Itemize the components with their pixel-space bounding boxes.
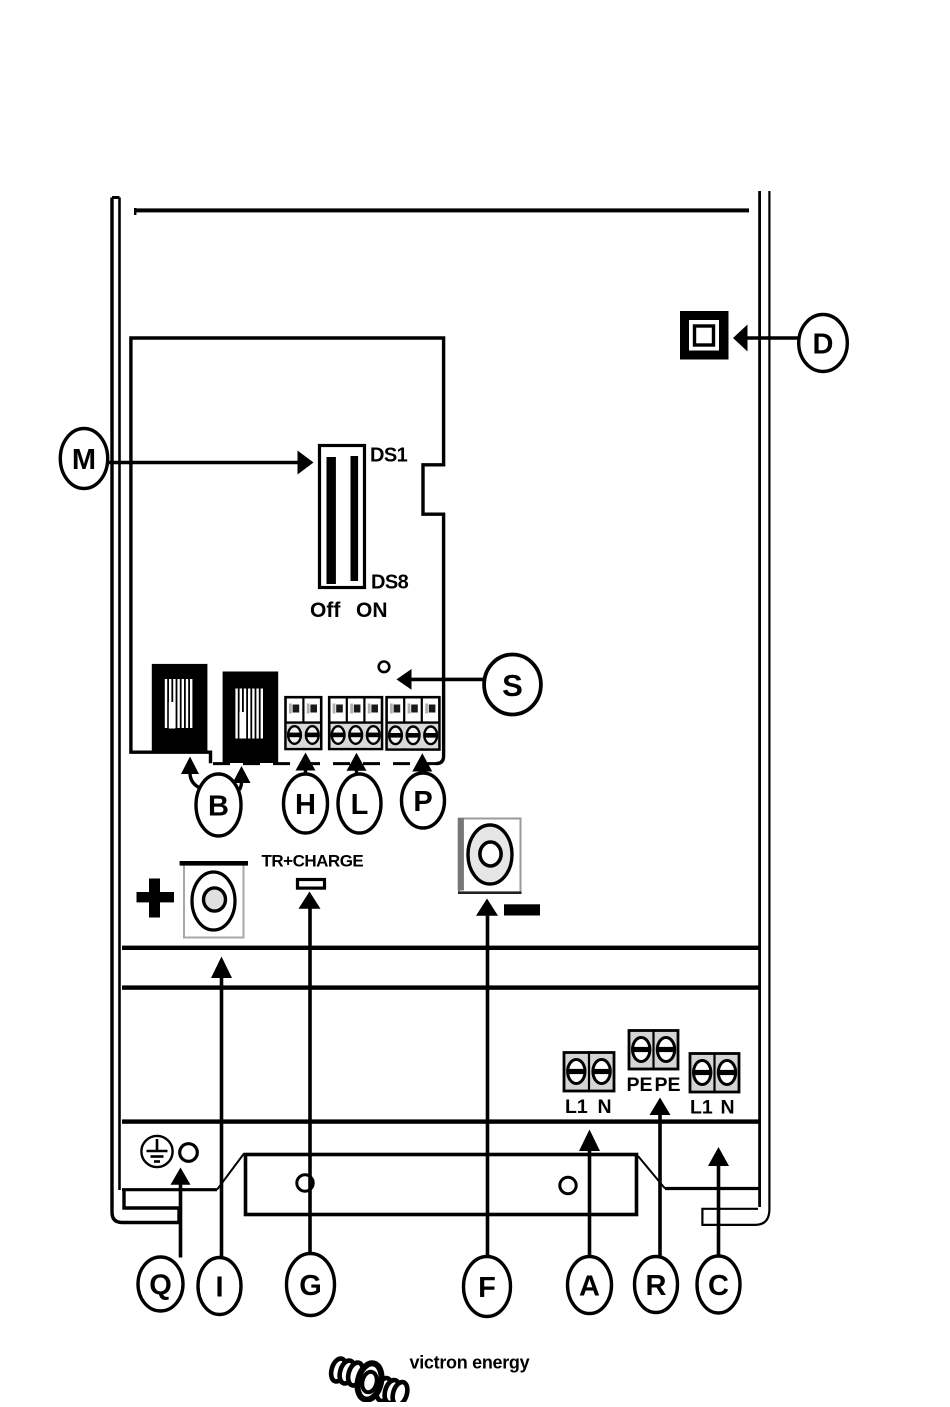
arrow G to sensor connector: [299, 892, 321, 1255]
bottom strip lower edge left segment: [122, 1188, 217, 1191]
diagonal to mounting bar left: [217, 1154, 244, 1190]
arrow A to AC input: [579, 1130, 600, 1257]
callout circle A: [568, 1257, 612, 1314]
victron energy logo mark: [329, 1357, 410, 1407]
svg-text:A: A: [579, 1271, 600, 1303]
svg-text:ON: ON: [356, 599, 388, 622]
arrow Q to ground stud: [171, 1168, 191, 1258]
arrow S to hole: [397, 669, 485, 690]
svg-text:M: M: [72, 444, 96, 476]
callout circle R: [635, 1257, 678, 1313]
arrow P to terminal block: [412, 753, 432, 773]
callout circle I: [198, 1258, 241, 1315]
horizontal divider line 1: [122, 946, 759, 950]
RJ45 connector B1: [152, 664, 208, 754]
plus sign: [137, 879, 175, 918]
svg-text:R: R: [646, 1270, 667, 1302]
signal terminal block H (2 poles): [286, 697, 322, 749]
AC output terminal C (L1 N): [690, 1054, 739, 1093]
mounting bar: [246, 1155, 637, 1215]
control board outline: [131, 338, 444, 764]
svg-text:D: D: [813, 329, 834, 361]
svg-text:N: N: [721, 1097, 735, 1119]
svg-text:B: B: [208, 791, 229, 823]
signal terminal block P (3 poles): [387, 697, 440, 749]
arrow B to connector 1: [181, 757, 202, 790]
svg-text:L1: L1: [565, 1096, 588, 1118]
svg-text:C: C: [708, 1270, 729, 1302]
hole S: [379, 662, 390, 673]
callout circle G: [287, 1254, 335, 1316]
svg-text:S: S: [502, 668, 523, 703]
arrow R to PE terminal: [650, 1098, 671, 1257]
battery plus terminal I: [180, 861, 248, 938]
callout circle S: [484, 655, 541, 715]
chassis ground symbol: [141, 1136, 172, 1167]
svg-text:PE: PE: [655, 1074, 681, 1096]
svg-text:L1: L1: [690, 1097, 713, 1119]
arrow I to battery plus: [211, 957, 232, 1259]
arrow H to terminal block: [296, 753, 316, 775]
callout circle P: [402, 773, 445, 828]
svg-text:Q: Q: [149, 1270, 172, 1302]
mounting hole right: [560, 1177, 576, 1193]
horizontal divider line 3 (bottom strip top): [122, 1119, 760, 1123]
diagonal from mounting bar right: [638, 1156, 665, 1189]
svg-text:Off: Off: [310, 599, 341, 622]
PE terminal R: [629, 1031, 678, 1070]
svg-text:H: H: [295, 789, 316, 821]
callout circle F: [464, 1257, 511, 1317]
arrow D to window: [733, 325, 798, 352]
ground stud hole: [180, 1144, 198, 1162]
svg-text:L: L: [351, 789, 369, 821]
callout circle C: [697, 1256, 740, 1313]
LED / display window D: [680, 311, 729, 360]
arrow F to battery minus: [476, 899, 498, 1258]
arrow C to AC output: [708, 1147, 729, 1256]
callout circle D: [799, 315, 848, 372]
minus sign: [504, 904, 540, 915]
signal terminal block L (3 poles): [329, 697, 382, 749]
left side panel (double edge): [112, 198, 179, 1223]
callout circle M: [60, 429, 107, 489]
battery minus terminal F: [458, 818, 522, 894]
callout circle L: [338, 774, 381, 833]
horizontal divider line 2: [122, 985, 759, 989]
svg-text:PE: PE: [627, 1074, 653, 1096]
bottom strip lower edge right segment: [665, 1187, 759, 1190]
svg-text:P: P: [413, 786, 432, 818]
svg-text:I: I: [215, 1272, 223, 1304]
arrow L to terminal block: [347, 753, 367, 775]
svg-text:DS1: DS1: [370, 445, 408, 467]
svg-text:TR+CHARGE: TR+CHARGE: [262, 852, 364, 871]
callout circle Q: [138, 1257, 183, 1311]
arrow B to connector 2: [233, 766, 251, 793]
RJ45 connector B2: [223, 672, 279, 764]
right side panel (double edge): [702, 191, 769, 1225]
svg-text:F: F: [478, 1272, 496, 1304]
top edge line: [134, 208, 749, 215]
mounting hole left: [297, 1175, 313, 1191]
DIP switch block: [320, 446, 365, 588]
control board dashed bottom edge: [213, 762, 436, 765]
svg-text:G: G: [299, 1270, 322, 1302]
callout circle H: [284, 774, 328, 833]
svg-text:victron energy: victron energy: [410, 1353, 530, 1373]
callout circle B: [196, 774, 241, 836]
svg-text:DS8: DS8: [371, 572, 409, 594]
svg-text:N: N: [598, 1096, 612, 1118]
temperature sensor connector G: [298, 880, 325, 889]
AC input terminal A (L1 N): [564, 1053, 614, 1092]
arrow M to DIP switch: [106, 451, 314, 475]
